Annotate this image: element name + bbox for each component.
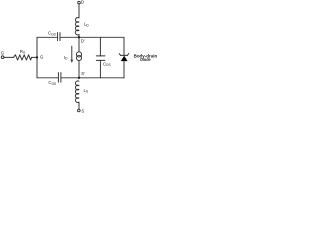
current source I_D: [76, 52, 81, 61]
wire diode branch top: [123, 37, 125, 55]
wire C_GS to S': [61, 77, 79, 79]
svg-text:LD: LD: [84, 22, 89, 28]
svg-text:RG: RG: [20, 49, 26, 55]
arrow I_D: [70, 46, 73, 63]
wire D to L_D: [78, 4, 80, 18]
node D': [78, 36, 80, 38]
wire L_S to S terminal: [78, 102, 80, 109]
wire bottom-left to C_GS: [37, 77, 58, 79]
wire resistor to node G: [32, 56, 37, 58]
wire current source to S': [78, 61, 80, 78]
capacitor C_GD: [58, 33, 60, 41]
resistor R_G: [14, 55, 32, 60]
svg-text:ID: ID: [64, 55, 68, 61]
inductor L_D: [75, 17, 79, 34]
svg-text:CGD: CGD: [48, 31, 57, 37]
label Body-drain Diode: [134, 53, 158, 62]
wire G to resistor: [4, 56, 14, 58]
wire diode branch bottom: [123, 61, 125, 78]
inductor L_S: [75, 81, 79, 103]
terminal G circle: [1, 56, 4, 59]
svg-text:CDS: CDS: [103, 61, 111, 67]
capacitor C_GS: [58, 73, 61, 83]
svg-text:Diode: Diode: [140, 57, 151, 62]
svg-text:LS: LS: [84, 88, 89, 94]
svg-text:D: D: [81, 0, 84, 5]
svg-text:G: G: [40, 54, 44, 59]
svg-text:S: S: [81, 108, 84, 113]
svg-text:CGS: CGS: [48, 80, 56, 86]
wire left vertical: [36, 37, 38, 78]
wire D' to current source: [78, 37, 80, 52]
svg-text:G: G: [1, 51, 5, 56]
svg-text:S': S': [81, 71, 85, 76]
diode body-drain: [119, 54, 129, 62]
svg-text:D': D': [81, 38, 85, 43]
terminal S circle: [78, 109, 81, 112]
capacitor C_DS: [96, 56, 105, 61]
node G: [36, 56, 38, 58]
wire bottom rail S' to diode branch: [79, 77, 124, 79]
wire top rail D' to diode branch: [79, 36, 124, 38]
wire C_DS top: [99, 37, 101, 56]
wire L_D to D': [78, 35, 80, 38]
wire C_GD to node D': [60, 36, 79, 38]
wire top-left to C_GD: [37, 36, 58, 38]
wire C_DS bottom: [99, 60, 101, 77]
node S': [78, 77, 80, 79]
terminal D circle: [78, 1, 81, 4]
